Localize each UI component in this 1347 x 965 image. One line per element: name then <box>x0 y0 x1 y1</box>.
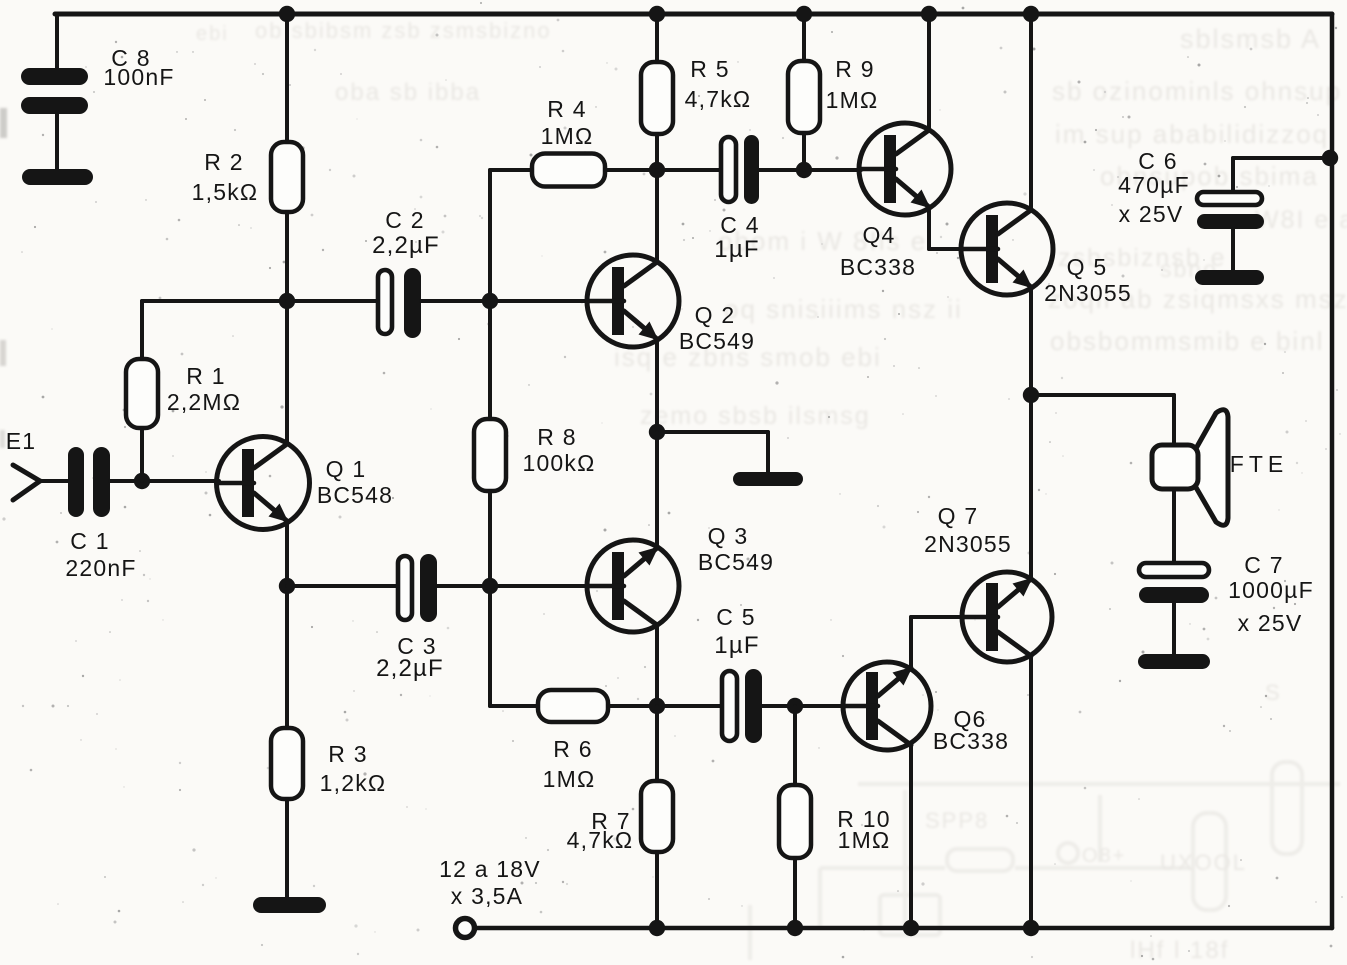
svg-text:sb ozinominls ohnsup: sb ozinominls ohnsup <box>1052 76 1342 106</box>
svg-text:BC549: BC549 <box>679 328 755 354</box>
junction Q7 collector bottom <box>1023 920 1039 936</box>
wire right edge rail <box>1330 14 1335 928</box>
svg-text:1µF: 1µF <box>714 632 759 659</box>
svg-text:Q 7: Q 7 <box>938 503 979 529</box>
svg-text:ob sbibsm zsb zsmsbizno: ob sbibsm zsb zsmsbizno <box>255 18 552 43</box>
Q1 label <box>317 456 393 508</box>
svg-text:x 25V: x 25V <box>1119 201 1184 227</box>
wire FTE to C7 <box>1172 489 1176 563</box>
wire R10 to bottom rail <box>793 858 797 928</box>
svg-text:2,2µF: 2,2µF <box>376 655 444 682</box>
wire R2 to node A <box>285 212 289 301</box>
wire R7 to bottom rail <box>655 852 659 928</box>
svg-text:FTE: FTE <box>1230 451 1288 477</box>
svg-text:E1: E1 <box>6 428 37 454</box>
svg-text:1MΩ: 1MΩ <box>543 766 596 792</box>
svg-text:1,2kΩ: 1,2kΩ <box>320 770 387 796</box>
wire Q2 collector up <box>655 170 659 262</box>
wire C2 to Q2 base <box>421 299 588 303</box>
svg-text:2N3055: 2N3055 <box>1044 280 1132 306</box>
junction R7 bottom <box>649 920 665 936</box>
wire C8 stem from rail <box>55 14 59 68</box>
junction R5/R4/C4 node <box>649 162 665 178</box>
wire C5 to Q6 base <box>762 704 844 708</box>
svg-text:Q 1: Q 1 <box>326 456 367 482</box>
svg-text:zemo sbsb ilsmsg: zemo sbsb ilsmsg <box>640 402 871 430</box>
svg-text:12 a 18V: 12 a 18V <box>439 856 541 882</box>
svg-text:lHf l 18f: lHf l 18f <box>1130 937 1229 964</box>
capacitor C5 <box>722 669 762 743</box>
svg-text:BC338: BC338 <box>840 254 916 280</box>
svg-text:C 4: C 4 <box>720 212 759 238</box>
resistor R9 <box>788 61 820 133</box>
capacitor C4 <box>721 135 759 204</box>
wire Q4 emitter to Q5 base <box>929 207 961 249</box>
transistor Q7 <box>962 572 1052 662</box>
wire Q3 emitter up <box>655 432 659 548</box>
svg-text:C 5: C 5 <box>716 604 755 630</box>
power terminal 12-18V <box>456 919 475 938</box>
capacitor C2 <box>378 268 421 338</box>
svg-text:UXOOL: UXOOL <box>1160 850 1247 875</box>
ground Q2/Q3 emitters <box>733 472 803 486</box>
R3 label <box>320 741 387 796</box>
junction C2/R8 node <box>482 293 498 309</box>
svg-text:220nF: 220nF <box>65 555 136 581</box>
resistor R4 <box>532 154 605 187</box>
junction Q1 emitter node <box>279 578 295 594</box>
svg-text:obsbommsmib e binl: obsbommsmib e binl <box>1050 326 1324 356</box>
resistor R8 <box>474 419 506 491</box>
svg-text:oba sb ibba: oba sb ibba <box>335 79 481 106</box>
junction node A <box>279 293 295 309</box>
svg-text:R 1: R 1 <box>186 363 225 389</box>
C7 label <box>1228 552 1314 636</box>
svg-text:R 2: R 2 <box>204 149 243 175</box>
wire Q3 collector down <box>655 625 659 706</box>
Q3 label <box>698 523 774 575</box>
svg-text:im sup ababilidizzoq: im sup ababilidizzoq <box>1055 119 1329 149</box>
svg-text:Q 3: Q 3 <box>708 523 749 549</box>
svg-text:BC338: BC338 <box>933 728 1009 754</box>
resistor R10 <box>779 785 811 858</box>
C5 label <box>714 604 759 659</box>
C1 label <box>65 528 136 581</box>
Q6 label <box>933 706 1009 754</box>
svg-text:1MΩ: 1MΩ <box>541 123 594 149</box>
wire node A to R1 <box>142 301 287 359</box>
C4 label <box>714 212 759 263</box>
C8 label <box>103 45 174 90</box>
Q4 label <box>840 222 916 280</box>
speaker FTE body <box>1152 445 1198 489</box>
svg-text:BC549: BC549 <box>698 549 774 575</box>
svg-text:C 6: C 6 <box>1138 148 1177 174</box>
svg-text:O8+: O8+ <box>1082 845 1126 867</box>
ground below C6 <box>1195 270 1264 285</box>
svg-text:R 4: R 4 <box>547 96 586 122</box>
FTE label <box>1230 451 1288 477</box>
Q5 label <box>1044 254 1132 306</box>
junction Q3 collector node <box>649 698 665 714</box>
transistor Q2 <box>587 255 679 347</box>
Q2 label <box>679 302 755 354</box>
junction rail R2 <box>279 6 295 22</box>
transistor Q1 <box>217 437 310 530</box>
R8 label <box>522 424 595 476</box>
svg-text:ebi: ebi <box>196 23 229 45</box>
svg-text:S: S <box>1265 680 1282 705</box>
junction Q6 collector bottom <box>903 920 919 936</box>
C6 label <box>1118 148 1190 227</box>
R2 label <box>192 149 259 205</box>
resistor R5 <box>641 62 673 134</box>
wire C6 to ground <box>1231 229 1235 271</box>
svg-text:100nF: 100nF <box>103 64 174 90</box>
wire rail to C6 <box>1233 158 1330 192</box>
ground below C8 <box>22 169 93 185</box>
svg-text:1µF: 1µF <box>714 236 759 263</box>
wire Q5 emitter to output node <box>1029 287 1033 395</box>
wire Q1 collector to node A <box>285 301 289 444</box>
wire E1 to C1 <box>39 479 68 483</box>
junction base Q1 <box>134 473 150 489</box>
wire R8 to R6 <box>490 491 538 706</box>
capacitor C3 <box>398 554 437 622</box>
capacitor C7 <box>1139 563 1209 603</box>
R10 label <box>837 806 890 853</box>
resistor R7 <box>641 781 673 852</box>
capacitor C6 <box>1197 192 1264 229</box>
wire rail to R2 <box>285 14 289 142</box>
svg-text:R 3: R 3 <box>328 741 367 767</box>
capacitor C8 <box>21 68 88 114</box>
R1 label <box>167 363 241 415</box>
svg-text:Q 5: Q 5 <box>1067 254 1108 280</box>
svg-text:2N3055: 2N3055 <box>924 531 1012 557</box>
transistor Q4 <box>859 123 951 215</box>
wire Q7 collector to bottom rail <box>1029 656 1033 928</box>
wire C4 to Q4 base <box>759 168 861 172</box>
wire Q4 collector to rail <box>927 14 931 130</box>
junction R9 bottom node <box>796 162 812 178</box>
svg-text:oq snisiiims nsz ii: oq snisiiims nsz ii <box>724 294 963 324</box>
C3 label <box>376 633 444 682</box>
R5 label <box>685 56 752 112</box>
wire output node to FTE <box>1031 395 1174 446</box>
svg-text:470µF: 470µF <box>1118 172 1190 198</box>
wire node A to C2 <box>287 299 378 303</box>
ground below R3 <box>253 897 326 913</box>
svg-text:1MΩ: 1MΩ <box>826 87 879 113</box>
R6 label <box>543 736 596 792</box>
svg-text:C 1: C 1 <box>70 528 109 554</box>
resistor R3 <box>271 728 303 799</box>
junction C6 rail <box>1322 150 1338 166</box>
svg-text:1MΩ: 1MΩ <box>838 827 891 853</box>
wire R5 to node <box>655 134 659 170</box>
svg-text:C 2: C 2 <box>385 207 424 233</box>
wire node to R10 <box>793 706 797 785</box>
wire R4 left drop <box>490 170 532 419</box>
resistor R6 <box>538 690 608 722</box>
wire Q1 emitter down <box>285 521 289 586</box>
svg-text:R 5: R 5 <box>690 56 729 82</box>
wire Q6 emitter to Q7 base <box>911 617 962 668</box>
wire C1 to Q1 base <box>110 479 219 483</box>
svg-text:Q4: Q4 <box>862 222 895 248</box>
resistor R2 <box>271 142 303 212</box>
transistor Q3 <box>587 540 679 632</box>
svg-text:R 9: R 9 <box>835 56 874 82</box>
speaker FTE horn <box>1194 410 1228 525</box>
junction Q5 collector rail <box>1023 6 1039 22</box>
junction Q4 collector rail <box>921 6 937 22</box>
wire rail to R5 <box>655 14 659 62</box>
svg-text:C 7: C 7 <box>1244 552 1283 578</box>
svg-text:1,5kΩ: 1,5kΩ <box>192 179 259 205</box>
wire rail to R9 <box>802 14 806 61</box>
wire top supply rail <box>55 12 1332 17</box>
wire R1 to Q1 base <box>140 428 144 481</box>
wire C3 to Q3 base <box>437 584 589 588</box>
svg-text:2,2MΩ: 2,2MΩ <box>167 389 241 415</box>
junction Q2/Q3 emitters <box>649 424 665 440</box>
wire C7 to ground <box>1172 603 1176 655</box>
resistor R1 <box>126 359 158 428</box>
svg-text:Q 2: Q 2 <box>695 302 736 328</box>
svg-text:4,7kΩ: 4,7kΩ <box>685 86 752 112</box>
wire R9 to node <box>802 133 806 170</box>
junction R10 bottom <box>787 920 803 936</box>
Q7 label <box>924 503 1012 557</box>
wire Q6 collector to bottom rail <box>909 744 913 928</box>
svg-text:2,2µF: 2,2µF <box>372 232 440 259</box>
wire emitters to ground <box>657 432 768 473</box>
svg-text:R 8: R 8 <box>537 424 576 450</box>
R7 label <box>567 808 634 853</box>
junction C3/R8 node <box>482 578 498 594</box>
wire node to R3 <box>285 586 289 728</box>
wire node to C3 <box>287 584 398 588</box>
svg-text:100kΩ: 100kΩ <box>522 450 595 476</box>
wire Q5 collector to rail <box>1029 14 1033 210</box>
wire R3 to ground <box>285 799 289 898</box>
svg-text:SPP8: SPP8 <box>925 808 989 833</box>
transistor Q5 <box>961 203 1053 295</box>
junction R10 node <box>787 698 803 714</box>
wire Q7 emitter to output node <box>1029 395 1033 579</box>
transistor Q6 <box>843 662 931 750</box>
wire bottom supply rail <box>474 926 1332 931</box>
capacitor C1 <box>68 447 110 517</box>
junction rail R9 <box>796 6 812 22</box>
junction rail R5 <box>649 6 665 22</box>
power label <box>439 856 541 909</box>
C2 label <box>372 207 440 259</box>
R9 label <box>826 56 879 113</box>
svg-text:x 3,5A: x 3,5A <box>451 883 523 909</box>
wire R6 to node <box>608 704 722 708</box>
R4 label <box>541 96 594 149</box>
wire C8 to ground <box>55 114 59 170</box>
junction output node <box>1023 387 1039 403</box>
wire node to R7 <box>655 706 659 781</box>
svg-text:x 25V: x 25V <box>1238 610 1303 636</box>
svg-text:4,7kΩ: 4,7kΩ <box>567 827 634 853</box>
svg-text:1000µF: 1000µF <box>1228 577 1314 603</box>
E1 label <box>6 428 37 454</box>
wire R4 to R5 node <box>605 168 721 172</box>
svg-text:BC548: BC548 <box>317 482 393 508</box>
input E1 arrow <box>13 465 40 500</box>
svg-text:R 6: R 6 <box>553 736 592 762</box>
ground below C7 <box>1138 654 1210 669</box>
wire Q2 emitter down <box>655 339 659 432</box>
